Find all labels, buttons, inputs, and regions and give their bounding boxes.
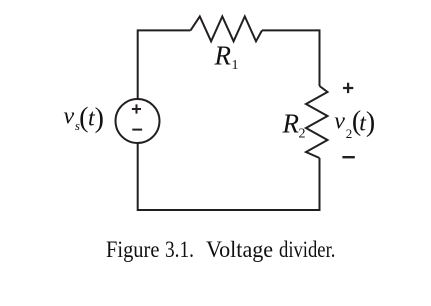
label R1 [214,40,239,73]
svg-text:v: v [334,109,345,135]
wire right-bottom segment [138,143,320,210]
svg-text:R: R [282,109,300,139]
minus sign inside source [132,129,142,131]
resistor R2 [306,86,328,158]
label v2(t) [334,106,375,141]
label vs(t) [64,103,104,135]
plus sign node v2 [343,83,353,93]
label R2 [282,109,306,142]
resistor R1 [191,16,263,41]
svg-text:v: v [64,104,75,130]
voltage source U1 circle [116,99,160,143]
minus sign node v2 [342,156,354,158]
wire top-right segment [262,30,320,86]
svg-text:R: R [214,40,232,70]
svg-text:2: 2 [299,126,306,141]
svg-text:1: 1 [232,58,239,73]
svg-text:): ) [366,107,375,138]
caption Figure 3.1 [0,237,431,267]
plus sign inside source [132,104,141,113]
wire top-left segment [138,30,191,99]
svg-text:): ) [95,103,104,134]
